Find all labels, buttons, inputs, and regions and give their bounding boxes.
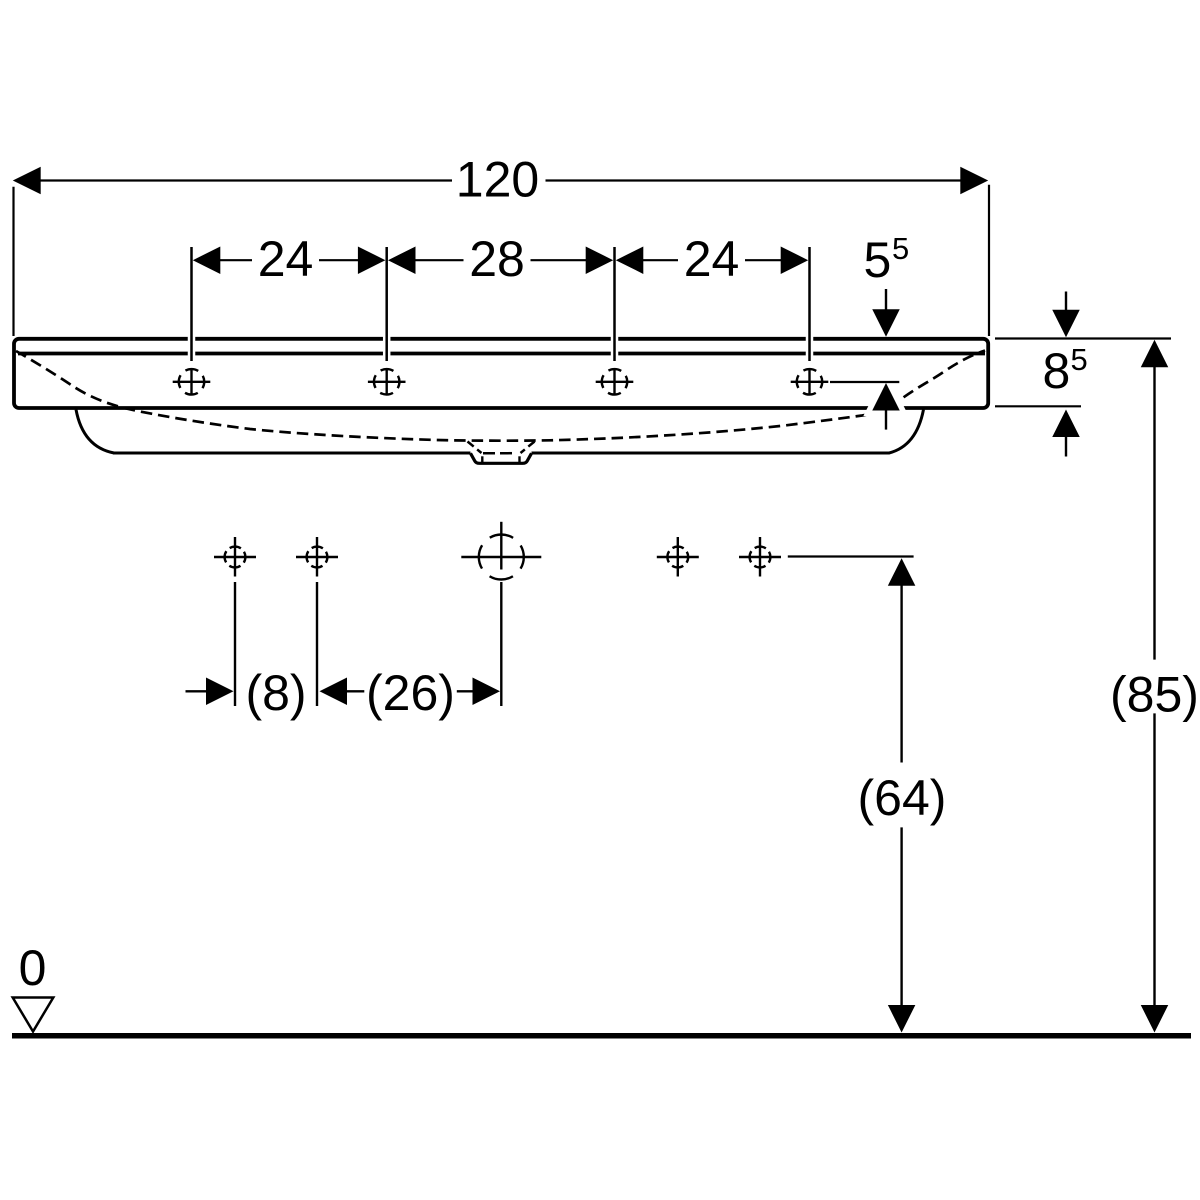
drain cup inner tick right [518, 456, 520, 462]
basin underside bottom line left [113, 452, 471, 455]
extension line below cross 1 [234, 582, 236, 706]
text gap masks [252, 251, 319, 269]
vertical dimension (85) [1153, 367, 1155, 1006]
svg-text:(8): (8) [245, 665, 306, 721]
tap hole cross 4 on basin [791, 368, 829, 395]
arrowhead 24 span1 right [358, 246, 386, 274]
dimension line 24-28-24 [219, 259, 782, 261]
tap hole cross 2 on basin [368, 368, 406, 395]
basin underside right curve [889, 410, 924, 454]
arrowhead 120 left [13, 167, 41, 195]
vertical dimension (64) [900, 585, 902, 1006]
drain funnel dashed left [468, 442, 482, 454]
extension line below cross 2 [316, 582, 318, 706]
lower fixing cross 1 [214, 537, 256, 577]
tap hole cross 3 on basin [596, 368, 634, 395]
floor line [12, 1033, 1191, 1039]
basin inner rim line [18, 352, 985, 356]
drain trap cup [471, 453, 532, 463]
svg-text:5: 5 [864, 232, 892, 288]
svg-text:24: 24 [258, 231, 314, 287]
svg-text:(85): (85) [1110, 667, 1199, 723]
dimension (26) left arrow [320, 678, 348, 706]
arrowhead 28 span2 right [586, 246, 614, 274]
reference line for 64 [788, 555, 914, 557]
svg-text:5: 5 [892, 231, 909, 266]
arrowhead 24 span3 left [616, 246, 644, 274]
svg-text:0: 0 [19, 940, 47, 996]
large drain cross [461, 522, 541, 580]
drain top dashed line [483, 452, 517, 455]
arrow 5^5 down to rim [885, 289, 887, 311]
svg-text:24: 24 [684, 231, 740, 287]
8^5 bottom reference line [995, 405, 1081, 407]
(85) bottom arrow [1141, 1005, 1169, 1033]
svg-text:(64): (64) [858, 770, 947, 826]
dashed bowl profile curve [16, 351, 985, 441]
svg-text:5: 5 [1071, 342, 1088, 377]
svg-text:(26): (26) [366, 665, 455, 721]
tap hole cross 1 on basin [173, 368, 211, 395]
lower fixing cross 2 [296, 537, 338, 577]
drain funnel dashed right [521, 442, 535, 454]
arrowhead 24 span3 right [781, 246, 809, 274]
8^5 up arrow [1052, 410, 1080, 438]
(85) top arrow [1141, 340, 1169, 368]
8^5 down arrow [1065, 292, 1067, 314]
lower fixing cross 4 [739, 537, 781, 577]
basin apron outline [14, 339, 988, 464]
svg-text:120: 120 [456, 152, 539, 208]
lower fixing cross 3 [657, 537, 699, 577]
svg-text:8: 8 [1043, 343, 1071, 399]
extension lines for 24/28/24 row (white cased through rim) [192, 247, 810, 361]
extension line left of 120 [12, 187, 14, 336]
arrowhead 120 right [960, 167, 988, 195]
hole depth reference line from cross 4 [830, 381, 899, 383]
arrowhead 24 span1 left [193, 246, 221, 274]
arrowhead 28 span2 left [388, 246, 416, 274]
extension line below drain cross [500, 582, 502, 706]
(64) bottom arrow [888, 1005, 916, 1033]
8^5 top reference line [995, 337, 1171, 339]
dimension (26) right arrow [457, 690, 474, 692]
basin underside bottom line right [532, 452, 890, 455]
arrow up to hole reference line (white halo) [872, 383, 900, 430]
svg-text:28: 28 [469, 231, 525, 287]
dimension line 120 [41, 179, 961, 181]
basin underside left curve [76, 410, 114, 454]
drain cup inner tick left [481, 456, 483, 462]
(64) top arrow [888, 558, 916, 586]
extension line right of 120 [988, 185, 990, 336]
dimension (8) outside arrow with stem [186, 690, 208, 692]
datum zero triangle [13, 998, 54, 1032]
